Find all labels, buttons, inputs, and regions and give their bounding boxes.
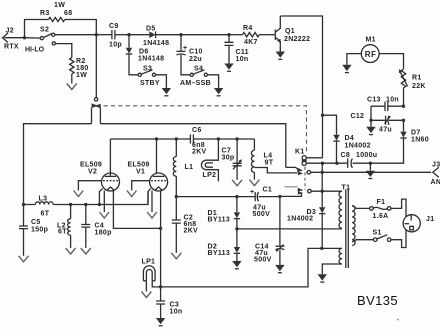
node I (C8 ground tap) (369, 162, 372, 165)
svg-text:1N4148: 1N4148 (143, 40, 169, 47)
wire D5 to node (156, 34, 181, 36)
svg-text:K1: K1 (295, 149, 305, 156)
svg-text:L1: L1 (185, 164, 194, 171)
wire bus to C9 (96, 34, 111, 36)
svg-text:S4: S4 (194, 66, 203, 73)
capacitor C4 180p (81, 205, 111, 237)
wire L4 tap to relay (254, 168, 297, 173)
svg-text:1N4002: 1N4002 (345, 143, 371, 150)
capacitor C9 (109, 23, 122, 49)
ground (R2) (67, 84, 77, 90)
wire C11 to ground (228, 45, 230, 63)
capacitor C5 150p (19, 205, 48, 234)
ground (M1) (342, 65, 351, 73)
svg-text:180: 180 (76, 65, 89, 72)
wire C12 to ground (370, 120, 372, 127)
switch S2 (25, 27, 55, 54)
wire V1 cathode leg (148, 189, 151, 205)
relay K1 supply contact (lower) (279, 187, 311, 197)
ground (V1 grid) (127, 191, 137, 197)
ground (V2 grid) (74, 191, 84, 197)
ground (L2) (66, 248, 76, 254)
node AC (D1/D2 junction) (235, 227, 238, 230)
svg-text:Q1: Q1 (285, 28, 295, 35)
wire C4 to ground (85, 227, 87, 248)
svg-text:D5: D5 (146, 26, 156, 33)
node O (heater bus join) (159, 227, 162, 230)
wire L1 bottom to HV line (175, 176, 177, 197)
wire C9 to node (115, 34, 129, 36)
wire V2 heater left leg (103, 191, 105, 213)
wire node to C11 node (181, 34, 229, 36)
svg-text:STBY: STBY (140, 80, 160, 87)
svg-text:180p: 180p (95, 230, 112, 237)
svg-text:30p: 30p (222, 155, 235, 162)
svg-text:500V: 500V (254, 257, 272, 264)
svg-text:2KV: 2KV (192, 149, 207, 156)
inductor L4 9T (251, 139, 273, 172)
wire relay to input network (left leg) (24, 124, 92, 205)
input network line (24, 192, 149, 205)
ground (V2 heater) (100, 212, 110, 218)
capacitor C10 (177, 35, 203, 63)
svg-text:C13: C13 (367, 97, 381, 104)
wire L4 to ground (253, 172, 255, 179)
capacitor C8 1000u (337, 152, 377, 168)
svg-text:BY113: BY113 (208, 217, 231, 224)
capacitor C6 6n8 2KV (190, 127, 206, 156)
diode D3 1N4002 (287, 163, 325, 248)
capacitor C7 30p (variable) (222, 139, 242, 180)
capacitor C12 47u (351, 113, 404, 134)
wire R1 to C13 node (403, 87, 405, 106)
wire C13 left to C12 row (370, 106, 372, 120)
svg-text:2N2222: 2N2222 (284, 36, 310, 43)
node Y (D3 bottom junction) (320, 247, 323, 250)
relay K1 input contact (92, 35, 101, 124)
svg-text:+: + (183, 45, 187, 52)
svg-text:C11: C11 (236, 49, 249, 56)
svg-text:S3: S3 (143, 66, 152, 73)
ground (C12) (366, 127, 375, 135)
ground (C11) (224, 64, 233, 72)
wire S2 upper throw to bus (55, 34, 97, 36)
svg-text:C7: C7 (222, 148, 232, 155)
diode D5 1N4148 (143, 26, 169, 48)
diode D4 1N4002 (323, 115, 371, 163)
wire antenna line (311, 171, 432, 173)
speck (397, 319, 399, 321)
svg-text:6T: 6T (41, 211, 50, 218)
wire coil upper lead (306, 157, 322, 159)
diode D2 BY113 (208, 229, 241, 261)
ground (S4) (214, 88, 223, 96)
plate bus (110, 138, 190, 140)
svg-text:C6: C6 (192, 127, 202, 134)
svg-text:150p: 150p (31, 227, 48, 234)
svg-text:EL509: EL509 (128, 162, 150, 169)
svg-text:L3: L3 (39, 196, 48, 203)
wire R2 to ground (71, 74, 73, 84)
svg-text:22K: 22K (412, 83, 426, 90)
svg-text:D7: D7 (411, 130, 421, 137)
capacitor C3 10n (156, 287, 182, 316)
wire J2 to node (5, 37, 25, 39)
mechanical link lower (dashed) (304, 167, 306, 190)
ground (LP1) (141, 292, 151, 298)
resistor R4 (243, 25, 260, 46)
wire D6 to S3 (129, 54, 138, 75)
node S (C7 tap) (235, 137, 238, 140)
diode D1 BY113 (208, 197, 241, 229)
svg-text:R3: R3 (40, 10, 50, 17)
svg-text:+: + (250, 189, 254, 196)
ground (C2) (171, 253, 181, 259)
wire F1 to J1 top (391, 199, 406, 217)
svg-text:10n: 10n (170, 309, 183, 316)
node H (C12 right) (402, 119, 405, 122)
svg-text:C1: C1 (263, 187, 273, 194)
switch S4 (180, 66, 211, 88)
wire node to R4 (229, 34, 243, 36)
wire coil lower lead (306, 162, 337, 164)
svg-text:10p: 10p (109, 42, 122, 49)
ground (C5) (19, 256, 29, 262)
inductor L3 6T (35, 196, 53, 218)
svg-text:R4: R4 (243, 25, 253, 32)
diode D6 1N4148 (126, 35, 165, 63)
wire Q1 collector top run (280, 16, 322, 158)
node AB (C14 tap) (278, 195, 281, 198)
inductor L2 6T (57, 205, 71, 236)
svg-text:EL509: EL509 (80, 162, 102, 169)
node Z (C2 tap) (175, 195, 178, 198)
wire V1 heater left leg (151, 191, 153, 213)
potentiometer R1 22K (399, 69, 426, 90)
tube V1 EL509 (128, 162, 168, 192)
wire relay contact to T1 (311, 190, 342, 192)
switch S3 (138, 66, 160, 88)
svg-text:C3: C3 (170, 302, 180, 309)
svg-text:47u: 47u (379, 127, 392, 134)
wire V2 heater right leg (113, 191, 160, 229)
connector J3 (431, 162, 440, 187)
node E (C11 tap) (227, 33, 230, 36)
svg-text:68: 68 (64, 10, 72, 17)
wire V2 cathode leg (99, 189, 102, 205)
capacitor C14 47u 500V (254, 196, 284, 263)
meter M1 RF (361, 37, 379, 63)
wire node to D5 (129, 34, 149, 36)
svg-text:1N4002: 1N4002 (287, 216, 313, 223)
svg-text:C4: C4 (95, 223, 105, 230)
wire M1 left lead (347, 54, 361, 65)
svg-text:1N4148: 1N4148 (138, 56, 164, 63)
ground (D2) (232, 261, 241, 269)
wire V1 heater right leg (to LP1) (160, 191, 162, 287)
wire relay to antenna changeover (right leg) (100, 124, 285, 168)
wire LP1 left leg to ground (145, 281, 147, 292)
svg-text:L4: L4 (264, 153, 273, 160)
ground (L4) (249, 180, 259, 186)
wire S2 common from J2 (25, 37, 41, 39)
svg-text:22u: 22u (189, 56, 202, 63)
svg-text:1.6A: 1.6A (373, 213, 389, 220)
svg-text:D4: D4 (345, 135, 355, 142)
svg-text:HI-LO: HI-LO (25, 47, 45, 54)
svg-text:BV135: BV135 (357, 293, 398, 308)
node P (V1 plate tap) (155, 137, 158, 140)
svg-text:R1: R1 (412, 75, 422, 82)
svg-text:LP1: LP1 (142, 259, 156, 266)
ground (Q1 emitter) (276, 52, 285, 60)
lamp LP1 (142, 259, 156, 281)
relay K1 antenna contact (upper) (286, 167, 311, 175)
wire C10 to S4 (181, 55, 190, 75)
node W (V2 cathode tap) (98, 203, 101, 206)
ground (C4) (81, 248, 91, 254)
wire C3 to ground (160, 304, 162, 318)
wire C2 to ground (175, 223, 177, 253)
node V (C4 tap) (84, 203, 87, 206)
wire S4 to ground (207, 75, 218, 88)
svg-text:1000u: 1000u (356, 152, 377, 159)
wire doubler mid to T1 (237, 228, 342, 230)
node U (L2 tap) (69, 203, 72, 206)
node B (bus/R3 junction) (95, 33, 98, 36)
svg-text:6T: 6T (58, 229, 67, 236)
wire R3 left riser (25, 20, 49, 38)
wire LP1 right leg (152, 281, 160, 287)
wire C14 to ground (279, 250, 281, 265)
node G (C12 left) (369, 119, 372, 122)
svg-text:1W: 1W (76, 72, 87, 79)
node L (coil line / D3 top) (321, 162, 324, 165)
ground (C7) (232, 180, 242, 186)
ground (C3) (156, 318, 165, 326)
node J (D4 bottom) (335, 162, 338, 165)
svg-text:R2: R2 (76, 58, 86, 65)
wire V1 grid lead (132, 181, 150, 191)
fuse F1 1.6A (370, 199, 391, 220)
svg-text:J1: J1 (426, 216, 434, 223)
wire V2 plate lead (109, 139, 111, 176)
node K (D4 tap on Q1 line) (321, 114, 324, 117)
resistor R2 (70, 58, 89, 79)
heater line to T1 (161, 248, 342, 287)
node C (D6 tap) (127, 33, 130, 36)
node F (C13 right) (402, 105, 405, 108)
svg-text:RTX: RTX (4, 43, 19, 50)
HV line (176, 196, 279, 198)
capacitor C2 6n8 2KV (172, 197, 198, 235)
tube V2 EL509 (80, 162, 120, 192)
wire T1 primary top to F1 (352, 206, 370, 209)
svg-text:C10: C10 (189, 49, 203, 56)
relay K1 coil (295, 149, 307, 166)
node R (LP2 tap) (217, 137, 220, 140)
svg-text:2KV: 2KV (184, 228, 199, 235)
wire C5 to ground (23, 229, 25, 256)
wire S1 to J1 bottom (391, 230, 406, 248)
svg-text:500V: 500V (253, 211, 271, 218)
svg-text:C9: C9 (109, 23, 119, 30)
svg-text:M1: M1 (366, 37, 376, 44)
diode D7 1N60 (400, 120, 429, 143)
node Q (L1 tap) (175, 137, 178, 140)
ground (C8 line) (366, 163, 375, 178)
connector J1 (mains plug) (403, 215, 434, 232)
svg-text:1N60: 1N60 (411, 137, 429, 144)
ground (C14) (275, 265, 284, 273)
svg-text:C5: C5 (31, 219, 41, 226)
svg-text:V2: V2 (88, 169, 97, 176)
svg-text:AM–SSB: AM–SSB (180, 80, 211, 87)
node T (C5 corner) (22, 203, 25, 206)
svg-text:10n: 10n (386, 97, 399, 104)
node A (J2 junction) (23, 36, 26, 39)
svg-text:C12: C12 (351, 113, 365, 120)
capacitor C1 47u 500V (250, 187, 272, 219)
svg-text:V1: V1 (136, 169, 145, 176)
node D (C10 tap) (179, 33, 182, 36)
node M (ant crossing) (321, 171, 324, 174)
capacitor C11 (225, 35, 249, 63)
ground (T1 heater winding) (318, 274, 327, 282)
svg-text:J3: J3 (432, 162, 440, 169)
capacitor C13 10n (367, 97, 404, 112)
node N (D3 on T1 wire) (321, 190, 324, 193)
svg-text:RF: RF (365, 50, 377, 59)
wire C6 right to tank (194, 138, 255, 140)
node X (C3 tap) (159, 285, 162, 288)
transformer T1 (339, 185, 355, 269)
wire D7 to C8 line (370, 138, 403, 163)
transistor Q1 2N2222 (275, 16, 310, 52)
wire S2 lower throw to R2 (55, 44, 71, 58)
node AA (D1 tap) (235, 195, 238, 198)
wire L2 to ground (70, 235, 72, 248)
inductor L1 (173, 139, 193, 176)
wire V1 plate lead (156, 139, 158, 174)
wire S3 to ground (156, 75, 167, 88)
svg-text:S2: S2 (40, 27, 49, 34)
svg-text:D6: D6 (139, 49, 149, 56)
resistor R3 (40, 2, 72, 22)
ground (S3) (162, 88, 171, 96)
wire R3 right riser (65, 20, 97, 34)
wire V2 grid lead (78, 181, 101, 191)
wire T1 heater winding bottom to ground (322, 264, 342, 274)
wire T1 primary bottom to S1 (352, 240, 373, 242)
svg-text:F1: F1 (377, 199, 386, 206)
connector J2 (3, 28, 19, 51)
wire M1 right lead (379, 54, 403, 69)
switch S1 (373, 230, 392, 242)
lamp LP2 (201, 139, 218, 181)
ground (V1 heater) (147, 212, 157, 218)
wire R4 to Q1 base (259, 34, 274, 36)
svg-text:J2: J2 (6, 28, 14, 35)
svg-text:4K7: 4K7 (244, 39, 258, 46)
svg-text:ANT: ANT (431, 179, 440, 186)
svg-text:10n: 10n (236, 56, 249, 63)
svg-text:9T: 9T (265, 160, 274, 167)
svg-text:C8: C8 (341, 152, 351, 159)
svg-text:BY113: BY113 (208, 250, 231, 257)
svg-text:LP2: LP2 (203, 172, 217, 179)
svg-text:1W: 1W (54, 2, 65, 9)
mechanical link (dashed) (104, 106, 307, 152)
svg-text:S1: S1 (373, 230, 382, 237)
